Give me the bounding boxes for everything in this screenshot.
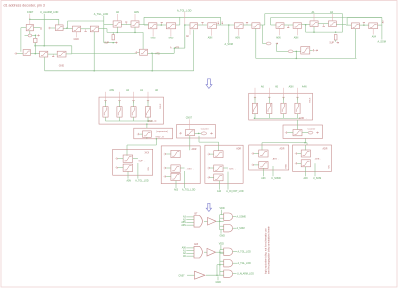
svg-text:ADR: ADR [192,148,197,151]
svg-text:A04: A04 [372,35,377,38]
svg-text:Counter: Counter [201,127,209,130]
svg-text:[expansion]: [expansion] [157,131,169,133]
svg-text:GND: GND [168,38,173,40]
svg-text:A0N: A0N [276,36,281,39]
svg-text:see the propagation delay anno: see the propagation delay annotations he… [268,225,271,274]
svg-text:5UP: 5UP [105,43,110,45]
svg-text:5UP: 5UP [330,43,335,45]
svg-text:A3N: A3N [109,89,114,92]
svg-text:A_TGL_LOD: A_TGL_LOD [135,179,149,182]
svg-text:A_TGL_LOD: A_TGL_LOD [177,10,192,13]
svg-text:U_SOM: U_SOM [313,178,321,180]
svg-text:A_SOM0: A_SOM0 [237,216,247,219]
svg-text:→ XXX →: → XXX → [226,168,236,170]
svg-text:GN: GN [328,165,330,169]
svg-text:#TB: #TB [155,53,160,55]
svg-text:A5N: A5N [181,221,186,224]
svg-text:RED: RED [285,163,287,168]
svg-text:A_SOM: A_SOM [237,227,245,230]
svg-text:A_SOM: A_SOM [378,40,386,43]
svg-text:ADR: ADR [280,147,285,150]
svg-text:XXX: XXX [145,152,150,154]
svg-text:MUX: MUX [309,97,311,102]
svg-text:GND: GND [151,38,156,40]
svg-text:U_ALARM_LOD: U_ALARM_LOD [237,273,254,276]
svg-text:A0N: A0N [208,36,213,39]
svg-text:GND: GND [220,234,226,237]
svg-text:→ATB→: →ATB→ [313,157,321,160]
svg-text:A0#: A0# [194,243,199,246]
svg-text:A03: A03 [304,177,309,180]
svg-text:A0N: A0N [127,179,132,182]
svg-text:A_IN_NOT_LOD: A_IN_NOT_LOD [226,190,244,193]
svg-text:Counter: Counter [308,127,316,130]
svg-text:CN07: CN07 [27,11,34,14]
svg-text:A0N: A0N [294,36,299,39]
svg-text:GN: GN [148,167,150,171]
svg-text:→ XXX →: → XXX → [185,168,195,170]
svg-text:U_SOM0: U_SOM0 [271,178,281,180]
svg-text:A_TGL_LOD: A_TGL_LOD [238,251,252,254]
svg-text:CN07: CN07 [179,276,186,278]
svg-text:A_SOM: A_SOM [225,43,233,46]
svg-text:VDD: VDD [219,242,224,245]
svg-text:VDD: VDD [220,207,225,210]
svg-text:CN07: CN07 [186,117,193,120]
svg-text:GND - N: GND - N [148,121,157,123]
svg-text:A03: A03 [261,177,266,180]
svg-text:d1 address decoder, pin 3: d1 address decoder, pin 3 [4,4,45,8]
svg-text:5UP →: 5UP → [139,161,146,163]
svg-text:A0N: A0N [235,36,240,39]
svg-text:A5N: A5N [289,85,294,88]
svg-text:GND: GND [74,38,80,41]
svg-text:A_TGL_LOD: A_TGL_LOD [94,13,109,16]
svg-text:ADR: ADR [323,147,328,150]
svg-text:GND: GND [59,65,65,68]
svg-text:A0N: A0N [134,11,139,14]
svg-text:→ATB→: →ATB→ [271,157,279,160]
svg-text:A0N: A0N [181,224,186,227]
svg-text:GND: GND [216,281,222,284]
svg-text:GND →: GND → [299,118,307,120]
svg-text:U_ALARM_LOD: U_ALARM_LOD [40,11,59,14]
svg-text:A4N: A4N [302,85,307,88]
svg-text:A10: A10 [217,190,222,193]
svg-text:MUX: MUX [160,103,162,108]
svg-text:A03: A03 [174,188,179,191]
svg-text:A06: A06 [182,247,187,250]
svg-text:A_TGL_LOD: A_TGL_LOD [182,188,196,191]
svg-text:A_TGL_LOD: A_TGL_LOD [238,262,252,265]
svg-text:ADR: ADR [236,148,241,151]
